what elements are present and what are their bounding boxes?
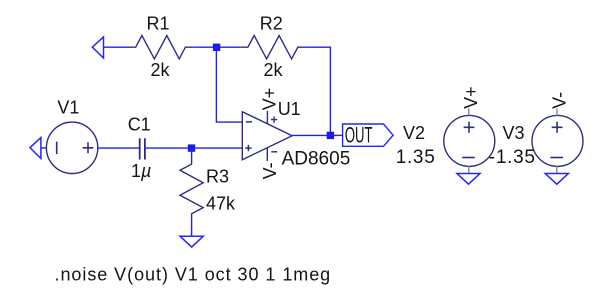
wire R1 to junction [193, 46, 216, 48]
op-amp non-inverting input mark [245, 145, 251, 151]
wire junction to OUT flag [330, 134, 342, 136]
ground (under V3) [545, 174, 568, 185]
resistor R1 [128, 36, 192, 59]
svg-text:R3: R3 [206, 167, 229, 187]
svg-text:V3: V3 [503, 123, 525, 143]
wire feedback vertical from junction to inverting input [216, 47, 242, 122]
V2 plus mark [464, 122, 475, 133]
svg-text:V-: V- [549, 92, 569, 109]
V2 top pin stub [468, 109, 470, 116]
svg-text:V-: V- [260, 162, 280, 179]
wire V1 to C1 [98, 147, 139, 149]
svg-text:R1: R1 [146, 13, 169, 33]
svg-text:2k: 2k [263, 60, 283, 80]
svg-text:.noise V(out) V1 oct 30 1 1meg: .noise V(out) V1 oct 30 1 1meg [55, 264, 332, 284]
svg-text:47k: 47k [206, 194, 236, 214]
junction node (R1/R2/feedback) [213, 44, 220, 51]
V3 plus mark [552, 122, 563, 133]
V3 top pin stub [556, 109, 558, 116]
wire non-inverting input [195, 147, 242, 149]
op-amp inverting input mark [246, 121, 252, 123]
op-amp V+ power pin stub [266, 111, 268, 124]
svg-text:1.35: 1.35 [396, 147, 436, 168]
wire V3 to ground [556, 166, 558, 173]
op-amp V- power pin stub [266, 148, 268, 161]
svg-text:R2: R2 [260, 13, 283, 33]
voltage source V1 circle [46, 122, 97, 173]
ground (under R3) [180, 236, 203, 247]
svg-text:-1.35: -1.35 [489, 147, 536, 168]
port flag OUT pentagon [343, 124, 394, 146]
junction node (C1/R3/op-amp) [188, 144, 195, 151]
wire junction to R3 [191, 149, 193, 158]
wire op-amp output to junction [292, 134, 330, 136]
wire junction to R2 [215, 46, 240, 48]
op-amp V- pin minus mark [271, 151, 277, 153]
svg-text:V1: V1 [57, 98, 79, 118]
V1 minus mark (rotated vertical bar) [56, 142, 58, 155]
resistor R2 [241, 36, 306, 59]
V1 plus mark [83, 142, 94, 153]
op-amp V+ pin plus mark [271, 117, 277, 123]
V3 minus mark [550, 157, 563, 159]
svg-text:V2: V2 [403, 123, 425, 143]
svg-text:U1: U1 [278, 99, 301, 119]
wire R3 to ground [191, 221, 193, 236]
svg-text:OUT: OUT [345, 123, 373, 148]
op-amp U1 triangle [242, 112, 292, 160]
svg-text:V+: V+ [260, 88, 280, 111]
svg-text:AD8605: AD8605 [282, 149, 351, 170]
port flag (left arrow at V1) [30, 138, 41, 159]
resistor R3 (vertical) [180, 157, 203, 221]
wire C1 to junction [146, 147, 192, 149]
voltage source V2 circle [444, 115, 495, 166]
svg-text:2k: 2k [150, 60, 170, 80]
voltage source V3 circle [532, 115, 583, 166]
svg-text:1µ: 1µ [131, 161, 151, 181]
svg-text:V+: V+ [461, 86, 481, 109]
V2 minus mark [462, 157, 475, 159]
wire arrow to V1 [41, 147, 47, 149]
svg-text:C1: C1 [128, 114, 151, 134]
port flag (left arrow at R1 net) [92, 37, 103, 58]
capacitor C1 [140, 138, 145, 159]
junction node (output) [327, 132, 334, 139]
ground (under V2) [457, 174, 480, 185]
wire V2 to ground [468, 166, 470, 173]
wire arrow to R1 [104, 46, 129, 48]
wire R2 right to corner down to output junction [305, 47, 330, 135]
